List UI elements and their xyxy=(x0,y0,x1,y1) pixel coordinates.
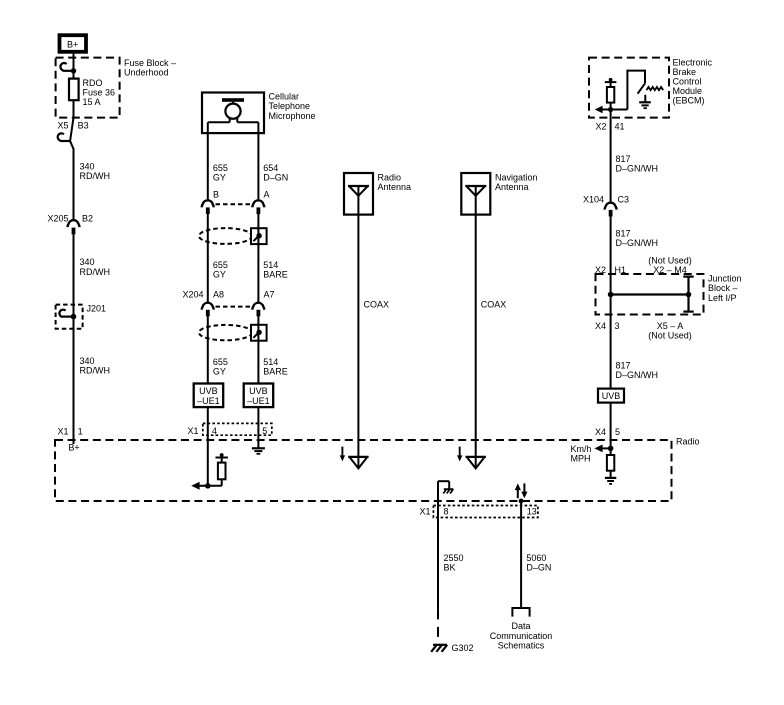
svg-text:8: 8 xyxy=(444,507,449,517)
svg-text:Km/h: Km/h xyxy=(571,444,592,454)
svg-text:Fuse Block –: Fuse Block – xyxy=(124,58,176,68)
wire label 817 D-GN/WH xyxy=(616,154,659,174)
svg-text:Block –: Block – xyxy=(708,283,738,293)
svg-text:(Not Used): (Not Used) xyxy=(648,255,692,265)
svg-text:RDO: RDO xyxy=(83,78,103,88)
antenna plug terminal (navigation) xyxy=(466,457,486,469)
wire 340 RD/WH segment 2 xyxy=(73,234,75,444)
svg-text:Antenna: Antenna xyxy=(378,182,412,192)
wire label 340 RD/WH xyxy=(80,161,111,181)
radio internal resistor (mic) xyxy=(216,453,228,479)
pin X2 41 xyxy=(595,122,624,132)
speed unit label Km/h MPH xyxy=(571,444,592,464)
wire 655 to radio pin 4 xyxy=(207,407,209,486)
shield drain box 1 xyxy=(251,228,267,244)
radio pin X1 1 B+ xyxy=(57,427,82,453)
svg-text:UVB: UVB xyxy=(249,386,268,396)
wire 817 D-GN/WH segment 1 xyxy=(610,118,612,203)
svg-text:D–GN/WH: D–GN/WH xyxy=(616,370,659,380)
svg-text:X5: X5 xyxy=(57,121,68,131)
svg-text:5: 5 xyxy=(262,426,267,436)
svg-text:J201: J201 xyxy=(87,303,107,313)
coax wire navigation antenna xyxy=(475,215,477,468)
connector X5 / B3 xyxy=(57,118,88,149)
pin X4 3 xyxy=(595,321,620,331)
svg-text:X2: X2 xyxy=(595,122,606,132)
in-line connector X104 C3 xyxy=(583,194,629,216)
svg-text:340: 340 xyxy=(80,161,95,171)
svg-text:3: 3 xyxy=(615,321,620,331)
svg-text:BARE: BARE xyxy=(263,367,288,377)
svg-text:G302: G302 xyxy=(452,643,474,653)
dashed connector link A8-A7 xyxy=(216,306,252,308)
radio speed input node xyxy=(594,445,613,453)
wire 2550 BK xyxy=(437,481,439,609)
svg-text:COAX: COAX xyxy=(481,300,507,310)
svg-text:5: 5 xyxy=(615,427,620,437)
svg-text:C3: C3 xyxy=(618,194,630,204)
svg-text:4: 4 xyxy=(212,426,217,436)
svg-text:Cellular: Cellular xyxy=(269,92,300,102)
svg-text:Radio: Radio xyxy=(378,172,402,182)
not used X2-M4 label xyxy=(648,255,692,275)
radio internal chassis ground stub (2550) xyxy=(438,481,453,493)
svg-text:817: 817 xyxy=(616,229,631,239)
connector X1 pins 8 and 13 dotted box xyxy=(419,506,537,518)
pin X4 5 xyxy=(595,427,620,437)
svg-text:X205: X205 xyxy=(47,214,68,224)
svg-text:Brake: Brake xyxy=(673,67,697,77)
connector pin A xyxy=(252,189,269,214)
svg-text:X5 – A: X5 – A xyxy=(657,321,684,331)
svg-text:A: A xyxy=(264,189,270,199)
svg-text:340: 340 xyxy=(80,257,95,267)
svg-text:D–GN/WH: D–GN/WH xyxy=(616,164,659,174)
connector pin A7 xyxy=(252,289,274,316)
junction block bus bar xyxy=(608,277,694,312)
wire 514 BARE segment 2 xyxy=(257,316,259,383)
fuse value label xyxy=(83,78,116,107)
option code UVB -UE1 right xyxy=(244,384,274,408)
svg-text:1: 1 xyxy=(78,427,83,437)
radio antenna label xyxy=(378,172,412,192)
option code UVB xyxy=(598,389,624,403)
svg-text:817: 817 xyxy=(616,360,631,370)
dashed wire to G302 xyxy=(437,609,439,638)
shield ellipse 2 xyxy=(199,325,252,340)
svg-text:Module: Module xyxy=(673,86,703,96)
cellular telephone microphone xyxy=(202,93,264,134)
radio dashed box xyxy=(55,440,672,501)
svg-text:X204: X204 xyxy=(182,289,203,299)
svg-text:B+: B+ xyxy=(67,40,78,50)
wire label 5060 D-GN xyxy=(526,553,551,573)
wire 514 to radio pin 5 xyxy=(257,407,259,448)
svg-text:5060: 5060 xyxy=(526,553,546,563)
battery positive B+ xyxy=(60,35,87,52)
wire label 2550 BK xyxy=(444,553,464,573)
navigation antenna xyxy=(461,173,490,215)
serial data arrows xyxy=(515,483,528,498)
svg-text:X1: X1 xyxy=(57,427,68,437)
svg-text:BK: BK xyxy=(444,563,456,573)
svg-text:Radio: Radio xyxy=(676,437,700,447)
ground at radio pin 5 xyxy=(252,448,265,454)
svg-text:655: 655 xyxy=(213,357,228,367)
svg-text:X1: X1 xyxy=(187,426,198,436)
microphone label xyxy=(269,92,316,121)
svg-text:X1: X1 xyxy=(419,507,430,517)
svg-text:D–GN/WH: D–GN/WH xyxy=(616,238,659,248)
wire 514 BARE segment xyxy=(257,214,259,302)
svg-text:(Not Used): (Not Used) xyxy=(648,331,692,341)
connector X204 pin A8 xyxy=(182,289,224,316)
svg-text:X2 – M4: X2 – M4 xyxy=(653,265,687,275)
pin X2 H1 xyxy=(595,265,626,275)
svg-text:Junction: Junction xyxy=(708,274,742,284)
svg-text:–UE1: –UE1 xyxy=(247,396,270,406)
svg-text:Underhood: Underhood xyxy=(124,68,169,78)
svg-text:UVB: UVB xyxy=(602,391,621,401)
svg-text:UVB: UVB xyxy=(199,386,218,396)
down arrow at radio antenna lead xyxy=(340,447,345,462)
wire 655 GY from mic pin B xyxy=(207,122,209,200)
shield drain connection 1 xyxy=(253,233,261,241)
svg-text:514: 514 xyxy=(263,357,278,367)
svg-text:GY: GY xyxy=(213,173,226,183)
off-page reference bracket xyxy=(512,608,529,617)
svg-text:B2: B2 xyxy=(82,214,93,224)
radio antenna xyxy=(344,173,373,215)
svg-text:Telephone: Telephone xyxy=(269,101,311,111)
svg-text:B+: B+ xyxy=(68,443,79,453)
svg-text:41: 41 xyxy=(615,122,625,132)
wire labels 655 GY and 514 BARE xyxy=(213,357,288,377)
dashed connector link B-A xyxy=(216,203,252,205)
ground G302 xyxy=(431,643,473,653)
svg-text:RD/WH: RD/WH xyxy=(80,366,111,376)
down arrow at navigation antenna lead xyxy=(457,447,462,462)
svg-text:X4: X4 xyxy=(595,427,606,437)
wire label 340 RD/WH xyxy=(80,356,111,376)
svg-text:RD/WH: RD/WH xyxy=(80,267,111,277)
svg-text:Fuse 36: Fuse 36 xyxy=(83,87,116,97)
svg-text:D–GN: D–GN xyxy=(526,563,551,573)
connector X1 pins 4 and 5 dotted box xyxy=(187,423,271,436)
wire 654 D-GN from mic pin A xyxy=(257,122,259,200)
not used X5-A label xyxy=(648,321,692,341)
wire 655 GY segment 3 xyxy=(207,316,209,383)
fuse block underhood dashed box xyxy=(56,58,120,118)
svg-text:340: 340 xyxy=(80,356,95,366)
junction block left I/P dashed box xyxy=(596,274,704,315)
svg-text:Left I/P: Left I/P xyxy=(708,293,737,303)
svg-text:Communication: Communication xyxy=(490,631,553,641)
EBCM dashed box xyxy=(589,58,669,118)
wire B+ to fuse xyxy=(73,52,75,79)
svg-text:Antenna: Antenna xyxy=(495,182,529,192)
option code UVB -UE1 left xyxy=(194,384,224,408)
svg-text:Data: Data xyxy=(511,621,530,631)
coax wire radio antenna xyxy=(357,215,359,468)
svg-text:RD/WH: RD/WH xyxy=(80,171,111,181)
shield ellipse 1 xyxy=(199,228,252,244)
junction block label xyxy=(708,274,742,303)
svg-text:A7: A7 xyxy=(264,289,275,299)
svg-text:B: B xyxy=(213,189,219,199)
svg-text:X4: X4 xyxy=(595,321,606,331)
wire 817 D-GN/WH segment 2 xyxy=(610,217,612,449)
wire label 340 RD/WH xyxy=(80,257,111,277)
EBCM internal ground xyxy=(639,95,651,108)
shield drain box 2 xyxy=(251,325,267,341)
wire 655 GY segment 2 xyxy=(207,214,209,302)
wire 340 RD/WH segment 1 xyxy=(73,148,75,220)
radio internal ground (speed) xyxy=(605,478,616,484)
svg-text:655: 655 xyxy=(213,260,228,270)
wire labels 655 GY and 654 D-GN xyxy=(213,163,288,183)
EBCM internal output arrow xyxy=(595,106,628,114)
wire 5060 D-GN xyxy=(519,499,524,608)
svg-text:817: 817 xyxy=(616,154,631,164)
svg-text:GY: GY xyxy=(213,270,226,280)
EBCM internal switch xyxy=(627,71,645,110)
splice J201 xyxy=(56,303,106,329)
radio internal resistor (speed) xyxy=(607,448,614,478)
EBCM label xyxy=(673,57,713,105)
svg-text:X104: X104 xyxy=(583,194,604,204)
svg-text:GY: GY xyxy=(213,367,226,377)
svg-text:13: 13 xyxy=(527,507,537,517)
svg-text:Schematics: Schematics xyxy=(498,640,545,650)
wire label 817 D-GN/WH xyxy=(616,229,659,249)
svg-text:BARE: BARE xyxy=(263,270,288,280)
svg-text:Navigation: Navigation xyxy=(495,172,538,182)
in-line connector X205 B2 xyxy=(47,214,93,235)
svg-text:15 A: 15 A xyxy=(83,97,101,107)
svg-text:COAX: COAX xyxy=(364,300,390,310)
svg-text:(EBCM): (EBCM) xyxy=(673,95,705,105)
svg-text:–UE1: –UE1 xyxy=(197,396,220,406)
shield drain connection 2 xyxy=(253,330,261,338)
svg-text:654: 654 xyxy=(263,163,278,173)
svg-text:655: 655 xyxy=(213,163,228,173)
fuse RDO Fuse 36 15 A xyxy=(69,79,79,101)
connector hook at fuse block feed xyxy=(60,63,76,73)
svg-text:514: 514 xyxy=(263,260,278,270)
svg-text:A8: A8 xyxy=(213,289,224,299)
data communication schematics label xyxy=(490,621,553,650)
radio internal node for mic input xyxy=(191,479,221,490)
EBCM internal resistor xyxy=(605,78,617,118)
EBCM internal coil xyxy=(646,87,663,90)
svg-text:MPH: MPH xyxy=(571,454,591,464)
svg-text:Control: Control xyxy=(673,76,702,86)
svg-text:2550: 2550 xyxy=(444,553,464,563)
antenna plug terminal (radio) xyxy=(348,457,368,469)
connector pin B xyxy=(202,189,219,214)
wire label 817 D-GN/WH xyxy=(616,360,659,380)
svg-text:Electronic: Electronic xyxy=(673,57,713,67)
svg-text:D–GN: D–GN xyxy=(263,173,288,183)
wire labels 655 GY and 514 BARE xyxy=(213,260,288,280)
fuse block label xyxy=(124,58,176,78)
navigation antenna label xyxy=(495,172,538,192)
svg-text:Microphone: Microphone xyxy=(269,111,316,121)
svg-text:B3: B3 xyxy=(78,121,89,131)
wire fuse to X5 connector xyxy=(73,100,75,117)
